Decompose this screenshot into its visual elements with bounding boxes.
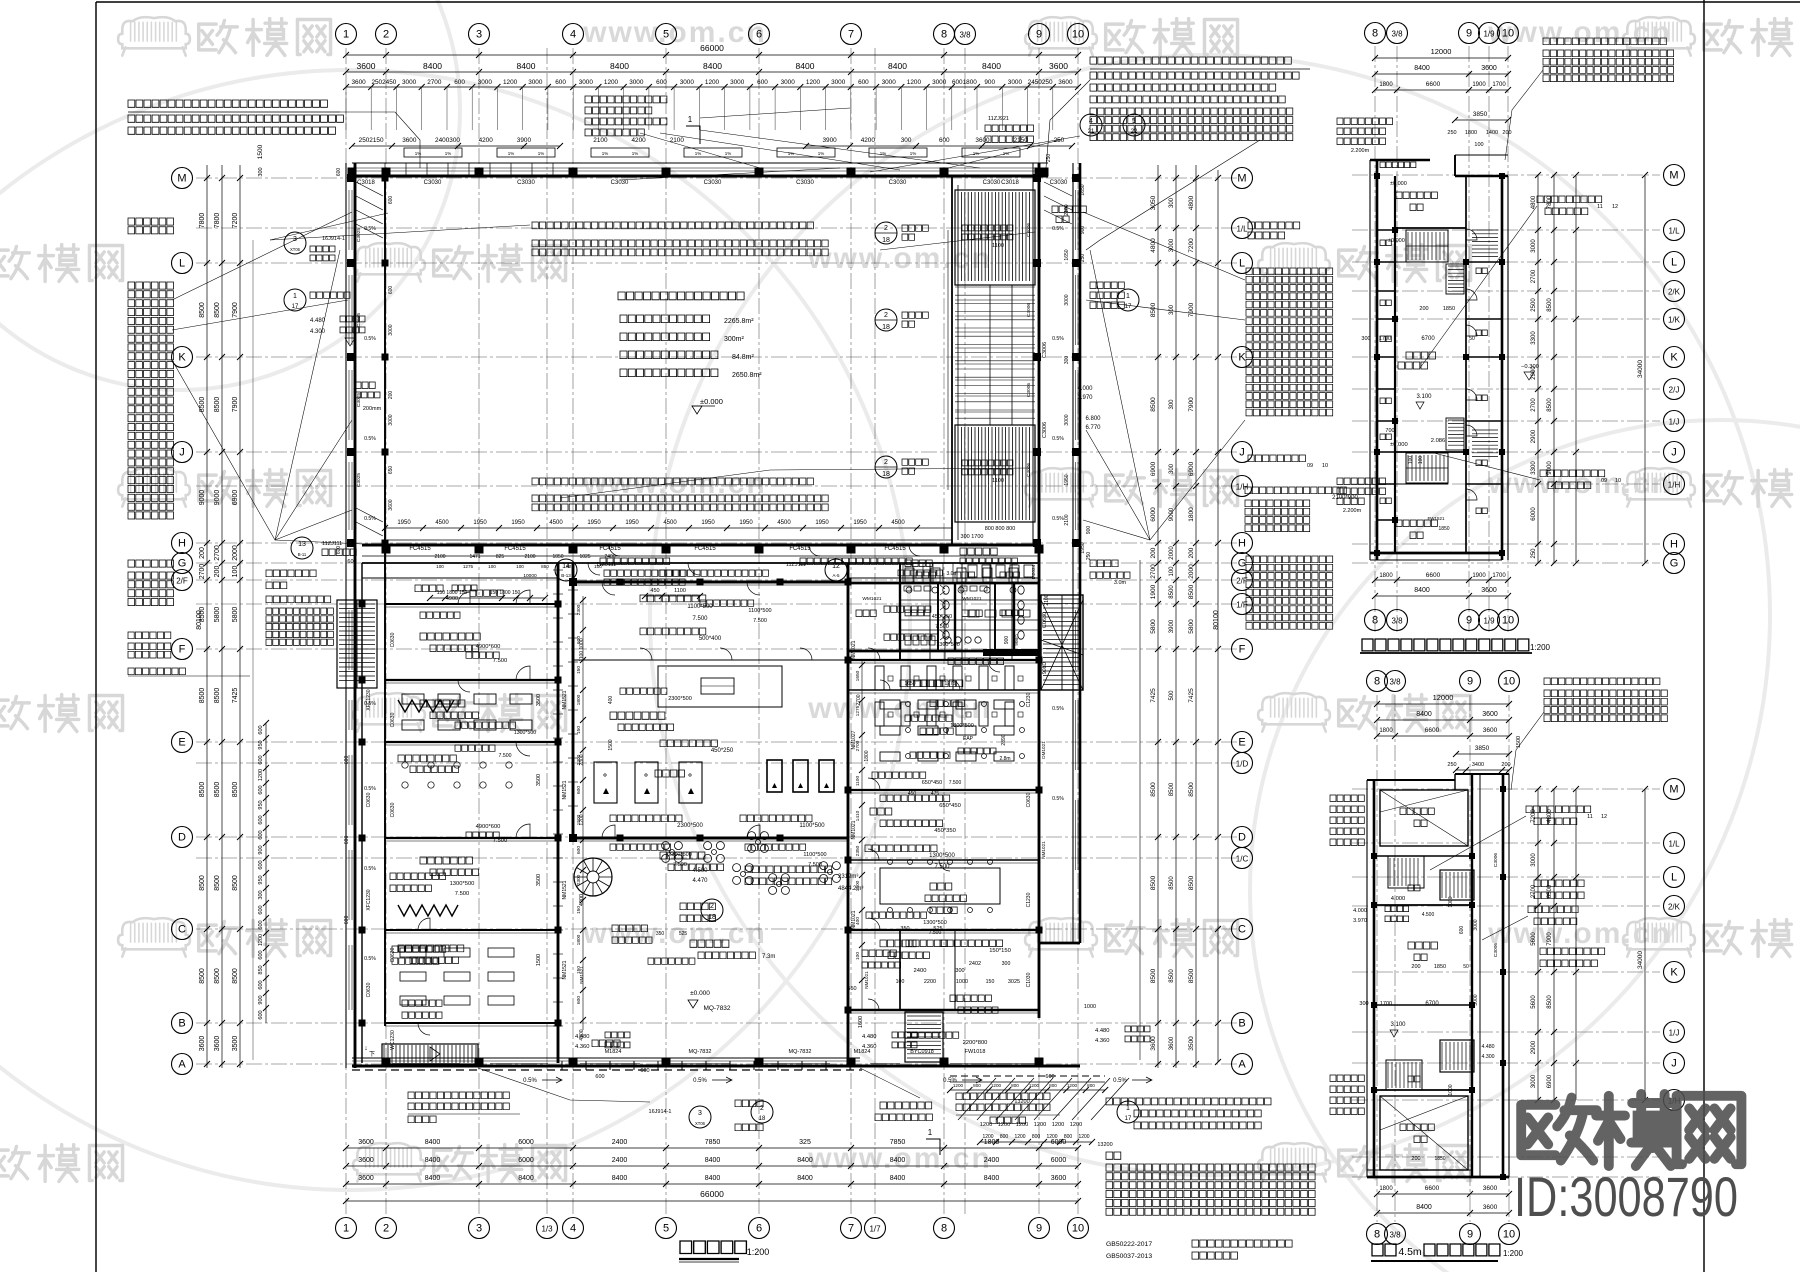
svg-text:2700: 2700	[856, 694, 862, 705]
svg-text:1100*500: 1100*500	[748, 608, 771, 614]
right panel 1 axis circles	[1365, 23, 1386, 44]
svg-text:3600: 3600	[1481, 587, 1497, 594]
svg-text:2700: 2700	[214, 545, 221, 561]
svg-text:F: F	[1239, 644, 1246, 656]
svg-text:325: 325	[799, 1139, 811, 1146]
svg-text:1900: 1900	[1472, 573, 1486, 579]
svg-text:6900: 6900	[1547, 1074, 1553, 1088]
svg-text:600: 600	[576, 846, 582, 854]
svg-text:4500: 4500	[549, 520, 563, 526]
svg-text:7: 7	[848, 29, 854, 41]
svg-text:8500: 8500	[199, 688, 206, 704]
svg-text:3000: 3000	[1064, 294, 1070, 305]
svg-text:XFC1230: XFC1230	[366, 889, 372, 910]
svg-text:0.5%: 0.5%	[364, 336, 376, 342]
svg-text:250: 250	[1046, 154, 1052, 163]
svg-text:600: 600	[858, 79, 869, 86]
svg-text:1:200: 1:200	[1503, 1249, 1524, 1258]
svg-text:1800: 1800	[864, 750, 870, 761]
svg-text:3000: 3000	[781, 79, 796, 86]
svg-text:3600: 3600	[1051, 1175, 1067, 1182]
corridor G-band inner walls	[362, 577, 558, 579]
svg-text:6700: 6700	[1425, 1001, 1439, 1007]
svg-text:100: 100	[1169, 566, 1175, 577]
svg-text:8500: 8500	[214, 302, 221, 318]
svg-text:6000: 6000	[518, 1157, 534, 1164]
svg-text:1300*500: 1300*500	[450, 881, 475, 887]
svg-text:3600: 3600	[357, 61, 376, 71]
svg-text:4.500: 4.500	[1422, 912, 1435, 918]
window mid-lines along right colonnade	[1075, 190, 1077, 250]
left dimension columns	[206, 165, 208, 1068]
svg-text:900: 900	[984, 79, 995, 86]
svg-text:F: F	[179, 644, 186, 656]
svg-text:1/L: 1/L	[1236, 225, 1248, 234]
svg-text:8400: 8400	[612, 1175, 628, 1182]
svg-text:C3025: C3025	[356, 228, 362, 242]
svg-text:50: 50	[1463, 964, 1469, 970]
svg-text:7.500: 7.500	[753, 618, 767, 624]
svg-text:1/9: 1/9	[1483, 30, 1495, 39]
svg-text:D: D	[178, 832, 186, 844]
svg-text:825: 825	[566, 564, 574, 569]
svg-text:1300*500: 1300*500	[923, 920, 947, 926]
svg-text:11: 11	[1587, 814, 1593, 820]
svg-text:1800: 1800	[1379, 1186, 1393, 1192]
svg-text:GB50222-2017: GB50222-2017	[1106, 1241, 1152, 1248]
svg-text:1/K: 1/K	[1668, 316, 1681, 325]
svg-text:600: 600	[258, 755, 264, 764]
svg-text:1/L: 1/L	[1668, 840, 1680, 849]
svg-text:WM1021: WM1021	[962, 596, 982, 602]
svg-text:www.om.cn: www.om.cn	[807, 692, 992, 725]
top dimension lines	[346, 54, 1078, 56]
svg-text:2265.8m²: 2265.8m²	[724, 318, 754, 325]
svg-text:1700: 1700	[1492, 82, 1506, 88]
dark band below washrooms	[983, 649, 1039, 656]
svg-text:0.5%: 0.5%	[1052, 436, 1064, 442]
svg-text:4.360: 4.360	[575, 1044, 590, 1050]
svg-text:FC4515: FC4515	[789, 546, 811, 552]
svg-text:C3025: C3025	[356, 393, 362, 407]
svg-text:C3030: C3030	[611, 180, 629, 186]
svg-text:3000: 3000	[730, 79, 745, 86]
svg-text:800: 800	[1011, 1083, 1019, 1088]
svg-text:www.om.cn: www.om.cn	[582, 917, 767, 950]
svg-text:300: 300	[901, 137, 912, 144]
svg-text:850: 850	[541, 564, 549, 569]
svg-text:4.470: 4.470	[692, 878, 708, 884]
lower block main walls	[361, 563, 363, 1063]
svg-text:200: 200	[1419, 306, 1428, 312]
svg-text:2502450: 2502450	[371, 79, 396, 86]
svg-text:1/J: 1/J	[1669, 1029, 1680, 1038]
svg-text:7800: 7800	[1547, 195, 1553, 209]
svg-text:3000: 3000	[1473, 994, 1479, 1005]
svg-text:900: 900	[258, 845, 264, 854]
svg-text:4.000: 4.000	[1077, 386, 1093, 392]
svg-text:600: 600	[258, 815, 264, 824]
svg-text:8: 8	[1374, 676, 1380, 688]
svg-text:1200: 1200	[806, 79, 821, 86]
svg-text:8500: 8500	[1547, 884, 1553, 898]
svg-text:J: J	[1671, 1058, 1677, 1070]
svg-text:2650.8m²: 2650.8m²	[732, 372, 762, 379]
svg-text:3900: 3900	[1169, 619, 1175, 633]
svg-text:1%: 1%	[725, 151, 732, 156]
right panel 2 rooms	[1380, 790, 1468, 846]
svg-text:200: 200	[1188, 547, 1195, 558]
svg-text:1200: 1200	[991, 1083, 1002, 1088]
svg-text:3600: 3600	[351, 79, 366, 86]
svg-text:8400: 8400	[1414, 65, 1430, 72]
hall floor boundary walls	[362, 544, 1039, 547]
svg-text:3600: 3600	[975, 137, 990, 144]
svg-text:11ZJ111: 11ZJ111	[786, 562, 806, 568]
svg-text:50: 50	[1469, 336, 1475, 342]
svg-text:2.086: 2.086	[1431, 438, 1446, 444]
top right leader texts	[1090, 57, 1291, 64]
svg-text:3600: 3600	[1483, 1204, 1498, 1211]
svg-text:1: 1	[688, 115, 693, 124]
svg-text:0.5%: 0.5%	[523, 1078, 537, 1084]
svg-text:1100*500: 1100*500	[799, 823, 825, 829]
svg-text:825: 825	[496, 554, 505, 560]
classroom desks	[880, 700, 900, 709]
svg-text:200: 200	[1150, 547, 1157, 558]
svg-text:2: 2	[884, 459, 888, 466]
svg-text:7.500: 7.500	[499, 753, 512, 759]
svg-text:C3006: C3006	[1493, 943, 1499, 957]
svg-text:3850: 3850	[1473, 111, 1488, 118]
svg-text:1/7: 1/7	[869, 1225, 881, 1234]
svg-text:NM1021: NM1021	[851, 820, 857, 839]
svg-text:1000: 1000	[1448, 1084, 1454, 1095]
svg-text:11ZJ921: 11ZJ921	[988, 116, 1009, 122]
right panel 2 top dims	[1377, 703, 1509, 705]
svg-text:600: 600	[258, 830, 264, 839]
svg-text:C0630: C0630	[390, 712, 396, 727]
svg-text:2100: 2100	[593, 137, 608, 144]
svg-text:9000: 9000	[214, 490, 221, 506]
svg-text:K: K	[1238, 352, 1246, 364]
svg-text:1200: 1200	[1029, 1083, 1040, 1088]
svg-text:9: 9	[1467, 676, 1473, 688]
svg-text:2700: 2700	[1531, 398, 1537, 412]
svg-text:1275: 1275	[944, 681, 955, 687]
svg-text:1: 1	[1126, 293, 1130, 300]
svg-text:XFC1230: XFC1230	[366, 689, 372, 710]
svg-text:FC4515: FC4515	[694, 546, 716, 552]
svg-text:4.300: 4.300	[1482, 1054, 1495, 1060]
svg-text:3850: 3850	[1475, 745, 1490, 752]
svg-text:3000: 3000	[1008, 79, 1023, 86]
main plan grid lines	[196, 48, 1240, 1215]
svg-text:1471: 1471	[469, 554, 480, 560]
svg-text:MQ-7832: MQ-7832	[703, 1005, 730, 1012]
svg-text:1/C: 1/C	[1236, 855, 1249, 864]
svg-text:3500: 3500	[536, 694, 542, 706]
svg-text:±0.000: ±0.000	[1390, 181, 1407, 187]
svg-text:10: 10	[1322, 463, 1328, 469]
svg-text:200: 200	[1501, 762, 1510, 768]
svg-text:7200: 7200	[232, 213, 239, 229]
svg-text:10: 10	[1503, 676, 1515, 688]
svg-text:1200: 1200	[1052, 1122, 1064, 1128]
svg-text:10: 10	[1072, 1223, 1084, 1235]
svg-text:8500: 8500	[214, 968, 221, 984]
svg-text:2100: 2100	[524, 554, 535, 560]
svg-text:2.8m: 2.8m	[999, 756, 1010, 762]
watermark logos	[118, 17, 330, 55]
svg-text:8500: 8500	[199, 968, 206, 984]
piano room desks vertical	[875, 666, 884, 690]
svg-text:100: 100	[1408, 456, 1414, 465]
svg-text:525: 525	[679, 931, 688, 937]
svg-text:900: 900	[1080, 226, 1086, 235]
svg-text:3900: 3900	[517, 137, 532, 144]
svg-text:8400: 8400	[518, 1175, 534, 1182]
exterior steps bottom right with diagonal hatch	[950, 1075, 1105, 1077]
svg-text:C3006: C3006	[1493, 853, 1499, 867]
svg-text:1950: 1950	[397, 520, 411, 526]
svg-text:C3025: C3025	[356, 313, 362, 327]
svg-text:1800: 1800	[984, 1139, 1000, 1146]
svg-text:1900: 1900	[1150, 584, 1157, 599]
svg-text:600: 600	[757, 79, 768, 86]
svg-text:8400: 8400	[610, 61, 629, 71]
svg-text:3/8: 3/8	[1389, 678, 1401, 687]
svg-text:1300*500: 1300*500	[936, 642, 960, 648]
svg-text:1650: 1650	[855, 670, 861, 681]
svg-text:800 800 800: 800 800 800	[985, 526, 1016, 532]
svg-text:600: 600	[258, 905, 264, 914]
svg-text:1100: 1100	[855, 776, 861, 787]
svg-text:NM1521: NM1521	[562, 880, 568, 899]
bleachers (seating tiers) right side of hall	[951, 176, 953, 545]
svg-text:18: 18	[882, 237, 890, 244]
svg-text:M: M	[1669, 170, 1678, 182]
svg-text:250: 250	[1086, 552, 1092, 561]
outer wall top with windows	[352, 162, 1048, 164]
svg-text:3.100: 3.100	[1416, 394, 1432, 400]
svg-text:1/9: 1/9	[1483, 617, 1495, 626]
top middle window leader text	[585, 96, 667, 103]
svg-text:8500: 8500	[1150, 782, 1157, 797]
svg-text:C: C	[1238, 924, 1246, 936]
right panel 1 title	[1362, 639, 1529, 651]
hall long leader diagonals	[270, 168, 1035, 498]
bottom note paragraphs	[1106, 1098, 1271, 1105]
svg-text:C0630: C0630	[390, 947, 396, 962]
svg-text:L: L	[1671, 257, 1677, 269]
svg-text:8500: 8500	[1169, 876, 1175, 890]
svg-text:1%: 1%	[445, 151, 452, 156]
svg-text:C3018: C3018	[1001, 180, 1019, 186]
svg-text:FW1521: FW1521	[1427, 516, 1445, 521]
svg-text:10: 10	[1502, 615, 1514, 627]
meeting room table	[880, 868, 1000, 904]
svg-text:8400: 8400	[984, 1175, 1000, 1182]
svg-text:3300: 3300	[1531, 331, 1537, 345]
svg-text:700: 700	[1385, 428, 1394, 434]
svg-text:2400: 2400	[612, 1139, 628, 1146]
svg-text:1800: 1800	[576, 694, 582, 705]
svg-text:7.500: 7.500	[934, 864, 950, 870]
svg-text:600: 600	[258, 1010, 264, 1019]
svg-text:300: 300	[1169, 197, 1175, 208]
svg-text:C3018: C3018	[357, 180, 375, 186]
svg-text:L: L	[179, 258, 185, 270]
svg-text:1950: 1950	[701, 520, 715, 526]
svg-text:0.5%: 0.5%	[364, 786, 376, 792]
svg-text:www.om.cn: www.om.cn	[807, 242, 992, 275]
right panel 1 top dims	[1375, 57, 1508, 59]
svg-text:10000: 10000	[523, 573, 537, 579]
svg-text:600: 600	[656, 79, 667, 86]
svg-text:100: 100	[436, 564, 444, 569]
svg-text:300: 300	[258, 167, 264, 176]
svg-text:1950: 1950	[473, 520, 487, 526]
svg-text:C3030: C3030	[1050, 180, 1068, 186]
svg-text:1800: 1800	[1465, 130, 1477, 136]
svg-text:FC4515: FC4515	[884, 546, 906, 552]
svg-text:NM1521: NM1521	[579, 966, 584, 984]
svg-text:3600: 3600	[402, 137, 417, 144]
svg-text:1500: 1500	[576, 814, 582, 825]
svg-text:ID:3008790: ID:3008790	[1514, 1165, 1738, 1228]
svg-text:www.om.cn: www.om.cn	[1487, 917, 1672, 950]
corridor band texts (H-G)	[600, 558, 670, 565]
svg-text:600: 600	[576, 636, 582, 644]
svg-text:12: 12	[832, 563, 840, 570]
svg-text:1300*500: 1300*500	[929, 853, 955, 859]
svg-text:8400: 8400	[797, 1175, 813, 1182]
svg-text:4500: 4500	[435, 520, 449, 526]
svg-text:400: 400	[855, 917, 861, 925]
svg-text:12000: 12000	[1433, 693, 1454, 702]
svg-text:3000: 3000	[831, 79, 846, 86]
svg-text:6900: 6900	[1188, 461, 1195, 476]
svg-text:MQ-7832: MQ-7832	[789, 1049, 812, 1055]
svg-text:C3006: C3006	[1026, 223, 1032, 237]
svg-text:EAP: EAP	[963, 736, 974, 742]
double-line wall shadows lower block	[385, 606, 558, 608]
svg-text:1/H: 1/H	[1668, 481, 1681, 490]
svg-text:1900: 1900	[1472, 82, 1486, 88]
svg-text:8500: 8500	[199, 875, 206, 891]
svg-text:1650: 1650	[1064, 249, 1070, 260]
svg-text:4900*600: 4900*600	[476, 824, 501, 830]
svg-text:1%: 1%	[538, 151, 545, 156]
svg-text:13200: 13200	[1097, 1142, 1112, 1148]
svg-text:C3006: C3006	[1026, 303, 1032, 317]
svg-text:4.500: 4.500	[692, 868, 708, 874]
svg-text:4: 4	[570, 1223, 576, 1235]
svg-text:2502150: 2502150	[359, 137, 384, 144]
svg-text:8400: 8400	[982, 61, 1001, 71]
svg-text:8500: 8500	[199, 397, 206, 413]
svg-text:1%: 1%	[695, 151, 702, 156]
svg-text:300: 300	[1169, 463, 1175, 474]
svg-text:K: K	[1670, 352, 1678, 364]
svg-text:1100*500: 1100*500	[803, 852, 826, 858]
svg-text:1500: 1500	[608, 739, 614, 750]
svg-text:1:200: 1:200	[747, 1247, 770, 1257]
svg-text:21: 21	[1088, 129, 1095, 135]
svg-text:B-13: B-13	[561, 573, 571, 578]
svg-text:8500: 8500	[1188, 782, 1195, 797]
svg-text:3: 3	[293, 236, 297, 243]
svg-text:3600: 3600	[1058, 79, 1073, 86]
svg-text:200: 200	[214, 566, 221, 578]
svg-text:3600: 3600	[358, 1139, 374, 1146]
svg-text:1/D: 1/D	[1236, 760, 1249, 769]
svg-text:0.5%: 0.5%	[1052, 336, 1064, 342]
svg-text:C3006: C3006	[1026, 463, 1032, 477]
svg-text:3600: 3600	[214, 1036, 221, 1052]
svg-text:2400: 2400	[612, 1157, 628, 1164]
left stairwell F-level	[337, 600, 377, 688]
svg-text:3.970: 3.970	[1353, 918, 1367, 924]
svg-text:±0.000: ±0.000	[690, 990, 710, 997]
svg-text:3600: 3600	[1049, 61, 1068, 71]
svg-text:3600: 3600	[1481, 65, 1497, 72]
svg-text:2: 2	[884, 312, 888, 319]
svg-text:6000: 6000	[518, 1139, 534, 1146]
svg-text:950: 950	[258, 875, 264, 884]
svg-text:1950: 1950	[1080, 542, 1086, 553]
svg-text:4.5m: 4.5m	[1398, 1246, 1422, 1258]
svg-text:7200: 7200	[1188, 238, 1195, 253]
svg-text:4: 4	[570, 29, 576, 41]
svg-text:C0630: C0630	[1026, 792, 1032, 807]
main plan axis circles left	[172, 168, 193, 189]
top-left leader text	[128, 100, 327, 107]
svg-text:908D: 908D	[1042, 662, 1048, 674]
svg-text:D: D	[1238, 832, 1246, 844]
svg-text:600: 600	[258, 920, 264, 929]
right margin paragraph (outside main plan)	[1248, 222, 1300, 229]
svg-text:150*150: 150*150	[989, 948, 1011, 954]
svg-text:200mm: 200mm	[363, 406, 382, 412]
svg-text:NM1521: NM1521	[562, 960, 568, 979]
svg-text:NM1521: NM1521	[562, 780, 568, 799]
bottom right small stair	[905, 1012, 943, 1062]
svg-text:3/8: 3/8	[1391, 617, 1403, 626]
choir room chairs	[402, 762, 408, 768]
right stair/elevator shaft	[1041, 595, 1083, 690]
svg-text:6600: 6600	[1425, 1185, 1440, 1192]
svg-text:600: 600	[388, 196, 394, 205]
svg-text:6001800: 6001800	[952, 79, 977, 86]
svg-text:E: E	[178, 737, 185, 749]
svg-text:650: 650	[388, 466, 394, 475]
svg-text:8500: 8500	[232, 782, 239, 798]
svg-text:1200: 1200	[998, 1122, 1010, 1128]
svg-text:11: 11	[1597, 204, 1603, 210]
svg-text:3: 3	[698, 1110, 702, 1117]
svg-text:250: 250	[1080, 254, 1086, 263]
svg-text:3500: 3500	[536, 774, 542, 786]
svg-text:8500: 8500	[214, 688, 221, 704]
svg-text:5600: 5600	[1531, 995, 1537, 1009]
svg-text:3000: 3000	[1531, 239, 1537, 253]
svg-text:2100: 2100	[1064, 514, 1070, 525]
svg-text:9: 9	[1466, 28, 1472, 40]
svg-text:150: 150	[576, 906, 582, 914]
svg-text:300: 300	[1169, 399, 1175, 410]
